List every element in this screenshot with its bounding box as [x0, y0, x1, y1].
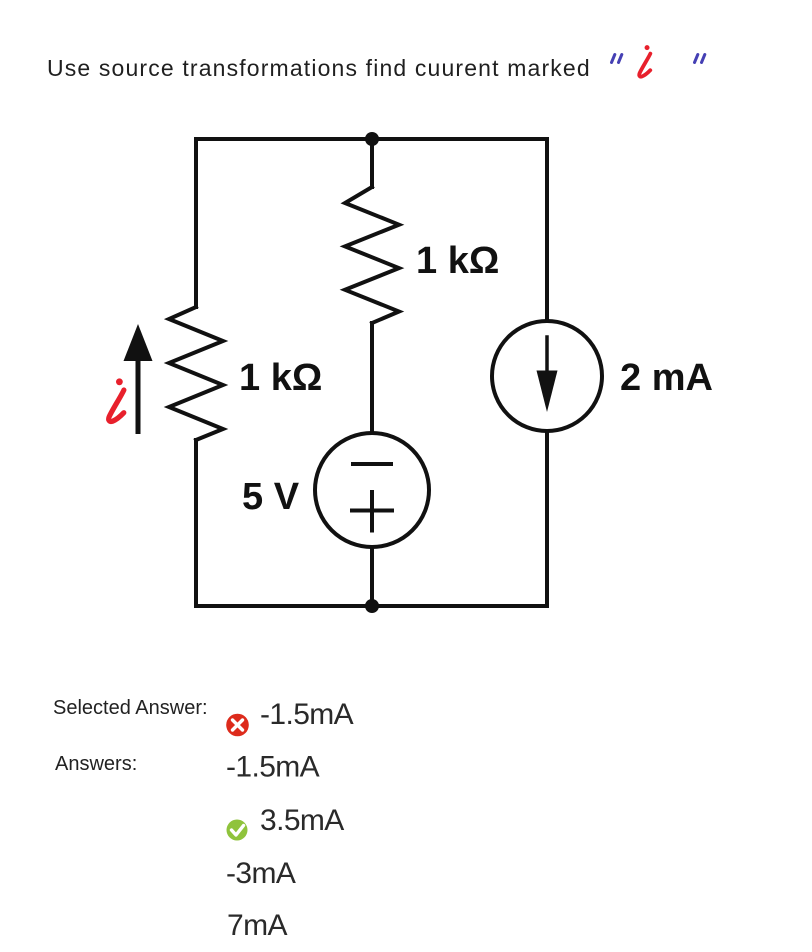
svg-text:1 kΩ: 1 kΩ	[239, 357, 322, 399]
svg-text:-3mA: -3mA	[226, 857, 296, 890]
svg-text:7mA: 7mA	[227, 909, 287, 942]
svg-text:Selected Answer:: Selected Answer:	[53, 697, 208, 719]
svg-text:3.5mA: 3.5mA	[260, 804, 344, 837]
svg-text:2 mA: 2 mA	[620, 357, 713, 399]
svg-text:Answers:: Answers:	[55, 753, 137, 775]
svg-text:1 kΩ: 1 kΩ	[416, 240, 499, 282]
svg-text:-1.5mA: -1.5mA	[260, 698, 354, 731]
svg-text:5 V: 5 V	[242, 476, 300, 518]
svg-text:-1.5mA: -1.5mA	[226, 751, 320, 784]
svg-text:Use source transformations fin: Use source transformations find cuurent …	[47, 55, 591, 81]
